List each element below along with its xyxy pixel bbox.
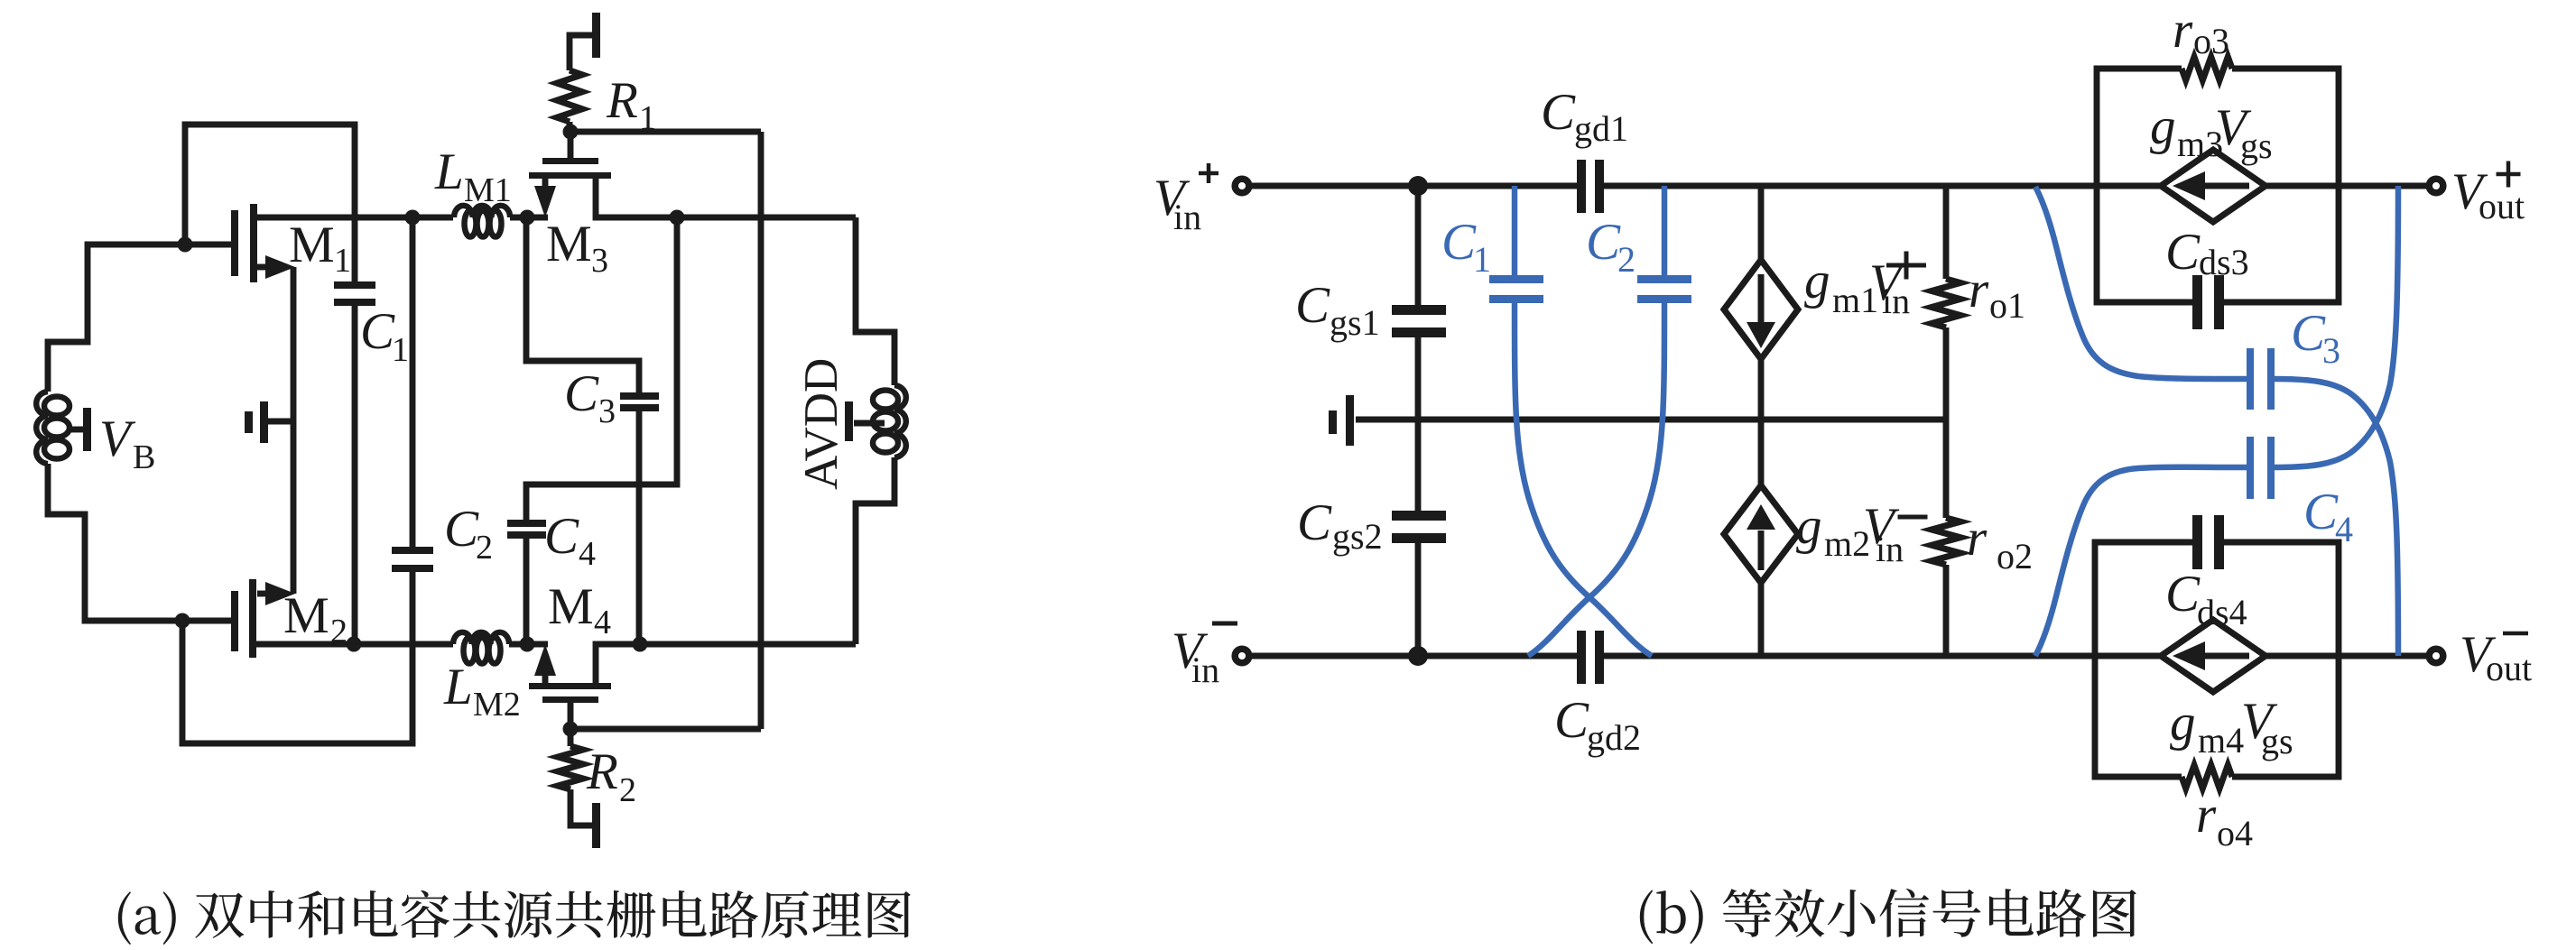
svg-text:in: in [1876, 529, 1904, 569]
svg-text:3: 3 [591, 242, 608, 280]
svg-text:C: C [1541, 84, 1576, 141]
svg-text:g: g [2170, 695, 2196, 752]
svg-text:M: M [546, 216, 592, 272]
svg-text:out: out [2479, 186, 2525, 226]
svg-text:ds4: ds4 [2197, 592, 2247, 632]
svg-text:g: g [1804, 253, 1830, 309]
svg-text:2: 2 [476, 529, 493, 567]
svg-text:C: C [2303, 484, 2339, 540]
svg-text:C: C [2165, 566, 2201, 623]
svg-text:1: 1 [639, 99, 656, 137]
svg-text:C: C [544, 508, 579, 565]
svg-text:gd2: gd2 [1587, 717, 1641, 758]
svg-text:4: 4 [579, 535, 596, 573]
svg-text:1: 1 [1473, 239, 1491, 280]
svg-text:r: r [2173, 2, 2193, 59]
svg-text:ds3: ds3 [2199, 242, 2249, 282]
svg-text:gd1: gd1 [1574, 108, 1628, 149]
svg-text:C: C [360, 303, 395, 360]
svg-text:in: in [1173, 197, 1201, 237]
svg-text:2: 2 [1617, 239, 1635, 280]
svg-text:C: C [1441, 214, 1477, 271]
svg-text:R: R [606, 72, 638, 129]
svg-text:M: M [289, 217, 335, 273]
svg-text:r: r [1969, 262, 1989, 318]
svg-text:gs1: gs1 [1330, 302, 1380, 343]
svg-text:r: r [2196, 787, 2217, 844]
svg-text:M: M [548, 578, 594, 635]
svg-text:2: 2 [619, 771, 636, 809]
svg-text:4: 4 [594, 604, 611, 641]
svg-text:AVDD: AVDD [795, 358, 848, 490]
svg-text:gs: gs [2240, 125, 2273, 166]
svg-text:C: C [2165, 224, 2201, 281]
svg-text:M2: M2 [473, 686, 521, 724]
svg-text:g: g [1796, 498, 1822, 555]
svg-text:L: L [434, 143, 464, 200]
svg-text:1: 1 [392, 331, 409, 369]
svg-text:o3: o3 [2193, 21, 2229, 61]
svg-text:C: C [1554, 692, 1589, 749]
svg-text:3: 3 [2322, 330, 2340, 371]
svg-text:in: in [1882, 281, 1910, 321]
svg-text:3: 3 [598, 392, 616, 430]
svg-text:in: in [1191, 650, 1219, 690]
svg-text:4: 4 [2335, 509, 2353, 549]
svg-text:M1: M1 [464, 171, 512, 209]
svg-text:m4: m4 [2198, 720, 2244, 761]
svg-text:gs: gs [2261, 721, 2293, 761]
svg-text:C: C [2291, 305, 2326, 362]
svg-text:o2: o2 [1997, 536, 2033, 576]
svg-text:1: 1 [334, 242, 351, 280]
svg-text:g: g [2150, 98, 2176, 155]
svg-text:B: B [133, 438, 155, 476]
svg-text:R: R [586, 743, 618, 800]
svg-text:gs2: gs2 [1332, 516, 1383, 557]
svg-text:C: C [1295, 277, 1330, 334]
svg-text:L: L [443, 659, 473, 715]
svg-text:C: C [1586, 214, 1621, 271]
svg-text:C: C [444, 501, 479, 558]
svg-text:M: M [283, 587, 329, 644]
svg-text:2: 2 [330, 613, 347, 650]
svg-text:out: out [2486, 648, 2532, 688]
svg-text:C: C [1297, 494, 1332, 551]
svg-text:r: r [1967, 510, 1988, 567]
svg-text:C: C [564, 365, 599, 422]
svg-text:o1: o1 [1989, 285, 2025, 326]
svg-text:o4: o4 [2217, 813, 2253, 853]
